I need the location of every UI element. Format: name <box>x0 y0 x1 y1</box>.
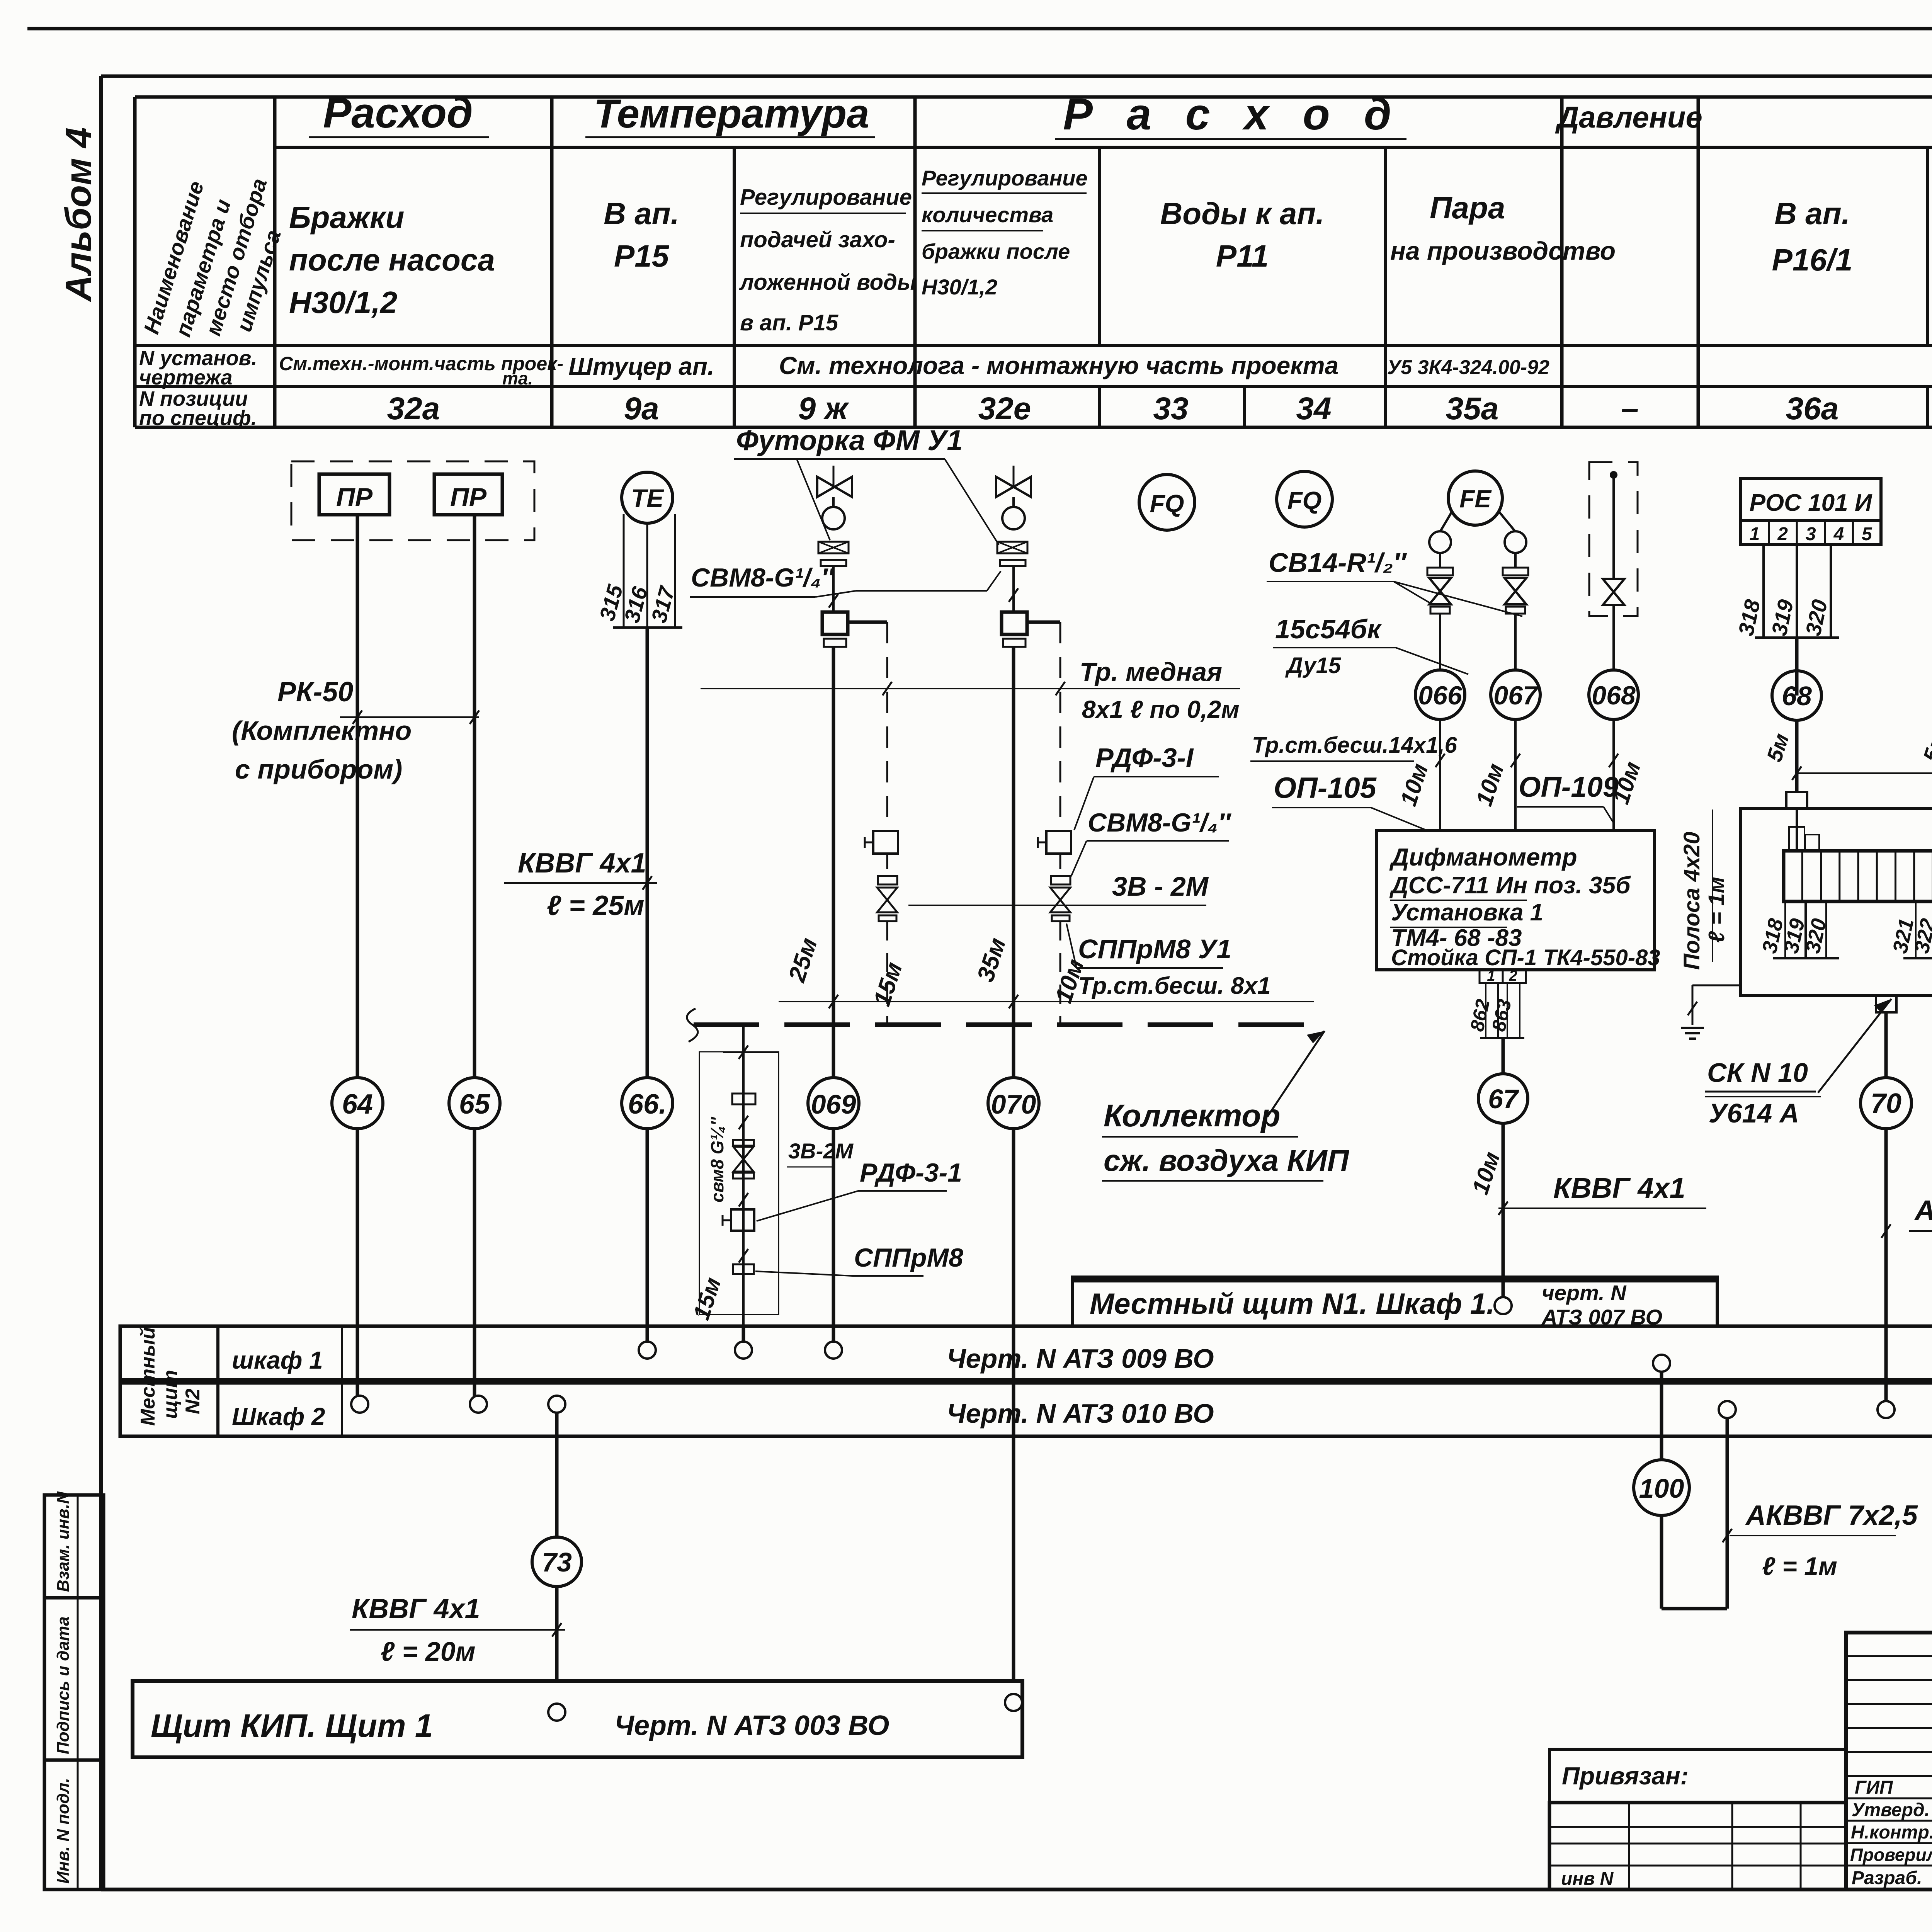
svg-text:щит: щит <box>159 1370 182 1419</box>
svg-text:Р15: Р15 <box>614 239 670 273</box>
instrument FQ (right) <box>1277 471 1332 527</box>
svg-text:33: 33 <box>1153 391 1188 426</box>
branch to impulse line 069 <box>848 621 887 624</box>
collector left end squiggle <box>687 1009 698 1042</box>
svg-text:Местный щит N1. Шкаф 1.: Местный щит N1. Шкаф 1. <box>1090 1287 1495 1320</box>
circle cable 66 <box>622 1078 673 1129</box>
svg-text:СППрМ8: СППрМ8 <box>854 1243 963 1272</box>
wire 068 to дифманометр <box>1612 719 1615 831</box>
svg-text:РДФ-3-І: РДФ-3-І <box>1095 743 1194 773</box>
svg-text:64: 64 <box>342 1089 373 1120</box>
svg-text:чертежа: чертежа <box>139 366 233 389</box>
svg-text:У614 А: У614 А <box>1709 1098 1799 1128</box>
leader arrow to collector <box>1267 1031 1325 1117</box>
svg-text:Инв. N подл.: Инв. N подл. <box>54 1778 73 1884</box>
svg-text:Р16/1: Р16/1 <box>1772 243 1852 277</box>
svg-text:на производство: на производство <box>1390 236 1616 265</box>
svg-text:РОС 101 И: РОС 101 И <box>1750 490 1872 516</box>
left margin label boxes <box>44 1495 104 1889</box>
svg-text:9 ж: 9 ж <box>798 391 849 426</box>
дифманометр enclosure <box>1376 831 1655 970</box>
svg-text:Черт. N АТЗ 009 ВО: Черт. N АТЗ 009 ВО <box>947 1344 1214 1374</box>
svg-text:FE: FE <box>1459 485 1492 513</box>
shut-off valve on impulse 069 <box>877 888 897 912</box>
svg-text:67: 67 <box>1488 1084 1519 1114</box>
title mini grid top <box>1846 1655 1932 1657</box>
parameter table grid <box>135 95 1932 99</box>
wire 067 to дифманометр <box>1514 719 1517 831</box>
dashed enclosure around ПР instruments <box>291 461 534 540</box>
svg-text:Установка 1: Установка 1 <box>1391 899 1543 926</box>
svg-text:Штуцер ап.: Штуцер ап. <box>568 352 714 380</box>
svg-text:с прибором): с прибором) <box>235 754 402 784</box>
svg-text:та.: та. <box>502 368 533 388</box>
svg-text:Тр. медная: Тр. медная <box>1080 657 1222 687</box>
valve stack under left pot <box>1439 553 1441 568</box>
svg-text:Разраб.: Разраб. <box>1852 1868 1922 1888</box>
svg-text:Дифманометр: Дифманометр <box>1389 843 1577 871</box>
svg-text:36а: 36а <box>1786 391 1839 426</box>
title block frame <box>1846 1633 1932 1889</box>
impulse dashed line 069 <box>886 622 888 831</box>
svg-text:Пара: Пара <box>1430 190 1505 225</box>
branch to impulse line 070 <box>1027 621 1060 624</box>
circle cable 068 <box>1589 670 1638 719</box>
circle cable 70 <box>1861 1078 1912 1129</box>
dashed stand 068 <box>1589 462 1638 616</box>
cable trunk КВВГ 4х1 horizontal <box>1797 772 1932 774</box>
дифманометр terminal cells <box>1480 970 1526 983</box>
circle cable 066 <box>1415 670 1465 719</box>
svg-text:1: 1 <box>1750 524 1760 544</box>
svg-text:ПР: ПР <box>450 483 487 512</box>
terminal circle line 100 <box>1653 1355 1670 1372</box>
title rows <box>1846 1798 1932 1799</box>
svg-text:ГИП: ГИП <box>1855 1777 1893 1798</box>
cluster stem from collector <box>742 1025 745 1350</box>
box Привязан <box>1549 1749 1846 1803</box>
svg-text:Температура: Температура <box>594 91 869 136</box>
leader to valve 069 <box>797 459 830 540</box>
svg-text:Коллектор: Коллектор <box>1104 1098 1281 1133</box>
drawing inner frame <box>101 75 1932 78</box>
svg-text:Черт. N АТЗ 003 ВО: Черт. N АТЗ 003 ВО <box>614 1710 889 1741</box>
cluster boundary <box>699 1052 779 1315</box>
circle cable 067 <box>1491 670 1540 719</box>
circle cable 65 <box>449 1078 500 1129</box>
svg-text:сж. воздуха КИП: сж. воздуха КИП <box>1104 1143 1350 1177</box>
svg-text:ℓ = 20м: ℓ = 20м <box>381 1636 476 1667</box>
shut-off valve on impulse 070 <box>1050 888 1070 912</box>
wire line 64 <box>356 515 359 1404</box>
wire line 66 <box>646 628 649 1350</box>
junction block 070 <box>1002 612 1027 634</box>
svg-text:Тр.ст.бесш.14х1,6: Тр.ст.бесш.14х1,6 <box>1252 733 1458 758</box>
svg-text:шкаф 1: шкаф 1 <box>232 1346 323 1374</box>
svg-text:подачей захо-: подачей захо- <box>740 227 895 252</box>
loop return wire <box>1662 1607 1727 1611</box>
cluster filter РДФ-3-1 <box>731 1209 754 1231</box>
svg-text:черт. N: черт. N <box>1542 1281 1627 1305</box>
junction box СК N10 enclosure <box>1740 809 1932 995</box>
positioner box 070 <box>997 542 1027 553</box>
svg-text:Черт. N АТЗ 010 ВО: Черт. N АТЗ 010 ВО <box>947 1398 1214 1429</box>
svg-text:(Комплектно: (Комплектно <box>232 716 412 746</box>
svg-text:ПР: ПР <box>336 483 373 512</box>
instrument FQ (left) <box>1139 474 1195 530</box>
wire to circle 67 <box>1502 1038 1505 1306</box>
cluster valve 3В-2М <box>733 1140 754 1146</box>
circle cable 67 <box>1478 1074 1528 1123</box>
svg-text:См. технолога - монтажную ч: См. технолога - монтажную часть проекта <box>779 352 1338 379</box>
svg-text:по специф.: по специф. <box>139 406 257 430</box>
svg-text:АКВВГ 7х2,5: АКВВГ 7х2,5 <box>1914 1194 1932 1226</box>
svg-text:Р а с х о д: Р а с х о д <box>1063 90 1402 139</box>
svg-text:В ап.: В ап. <box>604 196 679 231</box>
svg-text:Футорка ФМ У1: Футорка ФМ У1 <box>736 424 963 456</box>
svg-text:1: 1 <box>1487 968 1495 984</box>
svg-text:СВ14-R¹/₂″: СВ14-R¹/₂″ <box>1269 548 1407 578</box>
svg-text:ДСС-711 Ин поз. 35б: ДСС-711 Ин поз. 35б <box>1389 872 1631 899</box>
circle cable 069 <box>808 1078 859 1129</box>
svg-text:АКВВГ 7х2,5: АКВВГ 7х2,5 <box>1745 1500 1918 1531</box>
svg-text:66.: 66. <box>628 1089 667 1120</box>
svg-text:РДФ-3-1: РДФ-3-1 <box>860 1158 962 1187</box>
svg-text:5: 5 <box>1862 524 1872 544</box>
svg-text:32е: 32е <box>978 391 1031 426</box>
wire line 069 down <box>832 647 835 1350</box>
svg-text:–: – <box>1621 391 1639 426</box>
TE wire merge bar <box>613 626 682 629</box>
svg-text:Н30/1,2: Н30/1,2 <box>289 285 397 320</box>
svg-text:СВМ8-G¹/₄″: СВМ8-G¹/₄″ <box>1088 808 1231 837</box>
wires 318 319 320 <box>1762 544 1765 638</box>
bottom gland <box>1876 995 1896 1012</box>
svg-text:3В-2М: 3В-2М <box>788 1139 854 1163</box>
svg-text:Привязан:: Привязан: <box>1562 1762 1689 1790</box>
svg-text:8х1 ℓ по 0,2м: 8х1 ℓ по 0,2м <box>1082 696 1240 723</box>
svg-text:FQ: FQ <box>1150 490 1184 517</box>
condensate pot right <box>1505 531 1526 553</box>
svg-text:ОП-109: ОП-109 <box>1519 771 1619 803</box>
control valve on line 070 <box>1013 466 1015 487</box>
terminal numbers 321-323 <box>1916 901 1932 957</box>
svg-text:Регулирование: Регулирование <box>740 185 912 210</box>
control valve on line 069 <box>833 466 835 487</box>
filter РДФ on impulse 069 <box>873 831 898 854</box>
instrument ПР (left) <box>319 474 389 515</box>
svg-text:3В - 2М: 3В - 2М <box>1112 871 1209 901</box>
svg-text:количества: количества <box>922 202 1053 227</box>
impulse dashed line 070 <box>1060 622 1061 831</box>
svg-text:32а: 32а <box>387 391 440 426</box>
wire segments crossing bands <box>356 1326 359 1396</box>
junction block 069 <box>822 612 848 634</box>
instrument РОС 101 И box <box>1741 478 1881 520</box>
svg-text:СК N 10: СК N 10 <box>1707 1058 1808 1088</box>
svg-text:Воды к ап.: Воды к ап. <box>1160 196 1325 231</box>
terminal circles in шкаф 1 <box>639 1342 656 1359</box>
circle cable 64 <box>332 1078 383 1129</box>
svg-text:Регулирование: Регулирование <box>922 166 1088 190</box>
air collector dashed main <box>694 1022 1325 1027</box>
svg-text:4: 4 <box>1833 524 1844 544</box>
copper tube run <box>701 688 1240 689</box>
svg-text:FQ: FQ <box>1287 486 1322 514</box>
svg-text:68: 68 <box>1782 681 1812 711</box>
cluster lubricator СППрМ8 <box>733 1264 754 1274</box>
svg-text:Местный: Местный <box>137 1327 159 1426</box>
filter РДФ on impulse 070 <box>1046 831 1071 854</box>
svg-text:Щит КИП. Щит 1: Щит КИП. Щит 1 <box>151 1708 433 1744</box>
svg-text:Шкаф 2: Шкаф 2 <box>232 1403 325 1430</box>
terminal circle 67 in panel <box>1495 1297 1512 1314</box>
wire line 65 <box>473 515 476 1404</box>
label КВВГ 4х1 at 67 <box>1498 1207 1706 1209</box>
wire line 73 <box>555 1413 559 1712</box>
svg-text:070: 070 <box>991 1089 1036 1119</box>
terminal numbers 318-320 <box>1785 901 1805 957</box>
svg-text:ℓ = 1м: ℓ = 1м <box>1704 877 1729 943</box>
steel tube 8x1 run <box>779 1001 1314 1002</box>
svg-text:2: 2 <box>1777 524 1788 544</box>
svg-text:Альбом 4: Альбом 4 <box>58 128 99 302</box>
svg-text:Р11: Р11 <box>1216 239 1269 273</box>
svg-text:Утверд.: Утверд. <box>1852 1800 1930 1820</box>
svg-text:В ап.: В ап. <box>1774 196 1850 231</box>
terminal strip <box>1784 851 1932 901</box>
svg-text:100: 100 <box>1639 1473 1684 1503</box>
valve 068 <box>1603 579 1624 605</box>
svg-text:КВВГ 4х1: КВВГ 4х1 <box>1553 1172 1685 1204</box>
wires 862 863 <box>1486 983 1498 1038</box>
svg-text:КВВГ 4х1: КВВГ 4х1 <box>518 848 646 879</box>
svg-text:2: 2 <box>1509 968 1517 984</box>
wire 069 upper <box>832 566 835 612</box>
instrument ПР (right) <box>434 474 502 515</box>
svg-text:068: 068 <box>1592 681 1636 710</box>
positioner box 069 <box>818 542 849 553</box>
svg-text:Подпись и дата: Подпись и дата <box>54 1616 73 1754</box>
instrument TE <box>622 472 673 523</box>
circle cable 070 <box>988 1078 1039 1129</box>
terminal circle 070 in panel <box>1005 1694 1022 1711</box>
svg-text:Давление: Давление <box>1555 100 1702 134</box>
wire line 070 down <box>1012 647 1015 1702</box>
sheet top border line <box>27 27 1932 31</box>
instrument FE <box>1448 471 1502 525</box>
svg-text:Н.контр.: Н.контр. <box>1851 1822 1932 1843</box>
svg-text:ложенной воды: ложенной воды <box>739 270 916 295</box>
svg-text:свм8 G¼″: свм8 G¼″ <box>707 1116 727 1202</box>
revision mini table <box>1549 1803 1846 1889</box>
svg-text:после насоса: после насоса <box>289 243 495 277</box>
cable glands on top <box>1786 792 1807 809</box>
svg-text:N2: N2 <box>182 1388 204 1414</box>
ground bonding left <box>1692 985 1740 986</box>
svg-text:066: 066 <box>1418 681 1463 710</box>
svg-text:Проверил: Проверил <box>1850 1845 1932 1865</box>
svg-text:Взам. инв.N: Взам. инв.N <box>54 1491 73 1592</box>
svg-text:У5 3К4-324.00-92: У5 3К4-324.00-92 <box>1387 356 1549 379</box>
panel Местный щит N1 Шкаф 1 <box>1072 1277 1717 1328</box>
svg-text:65: 65 <box>459 1089 490 1120</box>
svg-text:70: 70 <box>1871 1088 1901 1119</box>
panel band шкаф 1 <box>120 1326 1932 1380</box>
svg-text:Стойка СП-1 ТК4-550-83: Стойка СП-1 ТК4-550-83 <box>1391 945 1660 970</box>
svg-text:ОП-105: ОП-105 <box>1274 772 1377 804</box>
svg-text:КВВГ 4х1: КВВГ 4х1 <box>352 1594 480 1624</box>
FE branch wires <box>1440 512 1452 532</box>
svg-text:067: 067 <box>1493 681 1539 710</box>
panel band шкаф 2 <box>120 1383 1932 1436</box>
leader to valve 070 <box>945 459 999 545</box>
svg-text:3: 3 <box>1806 524 1816 544</box>
svg-text:ℓ = 25м: ℓ = 25м <box>547 890 645 921</box>
svg-text:ℓ = 1м: ℓ = 1м <box>1762 1552 1837 1580</box>
panel Щит КИП Щит 1 <box>133 1681 1022 1757</box>
svg-text:35а: 35а <box>1446 391 1499 426</box>
label АКВВГ 7х2,5 l=35м <box>1909 1230 1932 1232</box>
svg-text:Бражки: Бражки <box>289 200 404 235</box>
valve stack under right pot <box>1514 553 1517 568</box>
condensate pot left <box>1429 531 1451 553</box>
wires inside box <box>1796 809 1798 851</box>
svg-text:в ап. Р15: в ап. Р15 <box>740 310 838 335</box>
label АКВВГ 7х2,5 l=1м <box>1730 1535 1896 1536</box>
svg-text:СВМ8-G¹/₄″: СВМ8-G¹/₄″ <box>691 563 835 592</box>
svg-text:9а: 9а <box>624 391 659 426</box>
svg-text:069: 069 <box>811 1089 856 1119</box>
svg-text:Полоса 4х20: Полоса 4х20 <box>1679 832 1704 970</box>
svg-text:Тр.ст.бесш. 8х1: Тр.ст.бесш. 8х1 <box>1078 973 1271 999</box>
terminal circle 73 in panel <box>548 1704 565 1721</box>
svg-text:ТЕ: ТЕ <box>631 484 664 512</box>
TE impulse wires 315 316 317 <box>623 514 625 628</box>
svg-text:РК-50: РК-50 <box>277 677 353 707</box>
svg-text:бражки после: бражки после <box>922 239 1070 264</box>
svg-text:Ду15: Ду15 <box>1285 653 1341 678</box>
wire 066 to дифманометр <box>1439 719 1441 831</box>
svg-text:Н30/1,2: Н30/1,2 <box>922 275 997 299</box>
terminal circles in шкаф 2 <box>351 1396 368 1413</box>
svg-text:Расход: Расход <box>323 89 473 137</box>
svg-text:15с54бк: 15с54бк <box>1275 614 1382 644</box>
wire 68 to box СК <box>1795 720 1799 792</box>
circle cable 73 <box>532 1537 582 1587</box>
circle cable 100 <box>1634 1460 1689 1515</box>
wire line 100 <box>1660 1372 1663 1609</box>
leader line РК-50 <box>340 716 479 718</box>
wire 70 down <box>1884 1012 1888 1409</box>
band label box <box>216 1326 219 1436</box>
svg-text:инв N: инв N <box>1561 1869 1614 1889</box>
svg-text:СППрМ8 У1: СППрМ8 У1 <box>1078 934 1231 964</box>
svg-text:34: 34 <box>1296 391 1331 426</box>
circle cable 68 <box>1772 671 1821 720</box>
cluster fitting <box>732 1094 755 1104</box>
svg-text:73: 73 <box>542 1547 572 1577</box>
